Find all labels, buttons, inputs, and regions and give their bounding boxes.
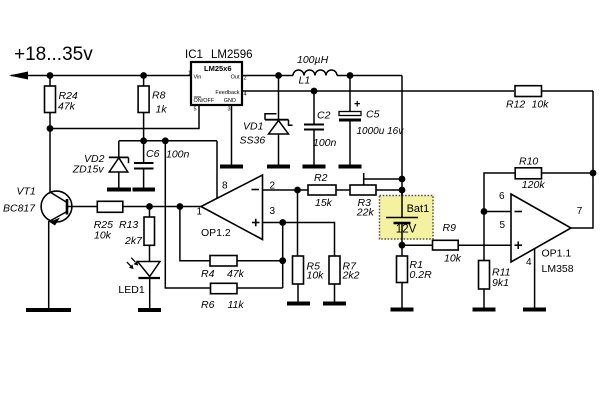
svg-text:R13: R13 xyxy=(119,219,138,231)
junction dot xyxy=(347,72,354,79)
svg-text:10k: 10k xyxy=(307,269,325,281)
wire R5 branch xyxy=(297,190,299,256)
wire pin 3 line xyxy=(263,223,335,257)
junction dot xyxy=(399,187,406,194)
svg-text:120k: 120k xyxy=(522,179,546,191)
svg-text:LM358: LM358 xyxy=(542,263,574,275)
svg-text:LM25x6: LM25x6 xyxy=(204,64,232,73)
junction dot xyxy=(399,242,406,249)
op-amp regulator IC1 LM2596 xyxy=(185,49,253,113)
ground R1 xyxy=(391,308,414,312)
resistor R3 22k adjustable xyxy=(350,173,402,219)
ground R7 xyxy=(323,302,346,306)
wire rail to R6 xyxy=(165,141,212,288)
svg-text:BC817: BC817 xyxy=(3,202,36,214)
wire ON/OFF line from R24 bottom to IC pin 5 xyxy=(50,105,199,129)
svg-text:3: 3 xyxy=(228,107,231,113)
junction dot xyxy=(279,257,286,264)
ground IC1 GND xyxy=(220,165,243,169)
wire VT1 emitter xyxy=(48,221,50,310)
resistor R10 120k xyxy=(484,156,593,212)
svg-text:C5: C5 xyxy=(366,109,380,121)
wire R25 to OP1.2 pin 1 xyxy=(123,206,201,208)
junction dot xyxy=(275,72,282,79)
svg-text:1000u 16v: 1000u 16v xyxy=(357,126,405,137)
junction dot xyxy=(311,88,318,95)
resistor R8 xyxy=(138,76,167,141)
wire pin 1 output line xyxy=(67,206,97,208)
wire pin 2 line xyxy=(263,189,309,191)
svg-text:10k: 10k xyxy=(444,253,462,265)
resistor R11 9k1 xyxy=(479,212,511,310)
transistor VT1 BC817 xyxy=(3,185,72,225)
resistor R24 xyxy=(45,76,78,129)
svg-text:1: 1 xyxy=(197,206,203,217)
resistor R13 xyxy=(119,207,155,262)
svg-text:C6: C6 xyxy=(146,148,160,160)
svg-text:22k: 22k xyxy=(356,207,375,219)
svg-text:IC1: IC1 xyxy=(185,49,203,61)
svg-text:R8: R8 xyxy=(152,90,166,102)
ground C6 xyxy=(133,188,156,192)
svg-text:10k: 10k xyxy=(532,99,550,111)
capacitor C6 100n xyxy=(134,141,190,190)
wire feedback line xyxy=(242,90,514,92)
ground R11 xyxy=(473,308,496,312)
svg-text:R9: R9 xyxy=(443,222,457,234)
wire output drop to battery xyxy=(401,76,403,218)
svg-text:2k7: 2k7 xyxy=(124,235,143,247)
svg-text:R6: R6 xyxy=(201,299,215,311)
svg-text:1k: 1k xyxy=(156,104,168,116)
ground C5 xyxy=(339,165,362,169)
junction dot xyxy=(481,208,488,215)
ground OP1.1 pin 4 xyxy=(523,308,546,312)
svg-text:ON/OFF: ON/OFF xyxy=(194,98,215,104)
svg-text:+18...35v: +18...35v xyxy=(14,44,93,65)
resistor R7 2k2 xyxy=(329,256,360,304)
svg-text:100n: 100n xyxy=(313,137,337,149)
ground LED1 xyxy=(138,308,161,312)
svg-text:5: 5 xyxy=(194,107,197,113)
ground VT1 emitter xyxy=(26,308,71,312)
svg-text:+: + xyxy=(354,99,360,111)
svg-text:L1: L1 xyxy=(299,75,311,87)
capacitor C2 100n xyxy=(304,91,337,167)
svg-text:R10: R10 xyxy=(519,156,538,168)
wire pin 6 input xyxy=(484,211,511,213)
ground C2 xyxy=(303,165,326,169)
wire pin 8 supply xyxy=(216,141,218,199)
resistor R1 0.2R xyxy=(397,245,433,309)
junction dot xyxy=(47,72,54,79)
diode VD1 SS36 schottky xyxy=(240,76,293,167)
resistor R12 10k xyxy=(506,86,593,111)
svg-text:100µH: 100µH xyxy=(297,54,329,66)
resistor R5 10k xyxy=(293,256,325,304)
svg-text:Feedback: Feedback xyxy=(215,90,239,96)
svg-text:11k: 11k xyxy=(228,299,245,311)
inductor L1 100µH xyxy=(293,54,337,87)
svg-text:10k: 10k xyxy=(94,229,112,241)
svg-text:47k: 47k xyxy=(58,101,76,113)
svg-text:2: 2 xyxy=(244,76,247,82)
wire IC GND pin to ground xyxy=(231,105,233,167)
svg-text:OP1.2: OP1.2 xyxy=(201,227,231,239)
svg-text:0.2R: 0.2R xyxy=(410,269,433,281)
wire L1 to output corner xyxy=(337,75,402,77)
wire pin1 branch to R4 xyxy=(180,207,210,261)
svg-text:R4: R4 xyxy=(201,268,215,280)
svg-text:12V: 12V xyxy=(396,223,417,235)
zener diode VD2 ZD15v xyxy=(72,141,129,190)
wire OP1.1 pin 4 to ground xyxy=(534,249,536,310)
wire input rail with arrow xyxy=(9,72,191,80)
junction dot xyxy=(146,203,153,210)
resistor R25 xyxy=(94,201,123,241)
op-amp OP1.2 xyxy=(197,175,276,240)
svg-text:5: 5 xyxy=(500,220,506,231)
svg-text:2k2: 2k2 xyxy=(342,269,360,281)
wire pin3 node vertical xyxy=(282,223,284,289)
wire Out pin to L1 xyxy=(242,75,293,77)
wire VT1 collector xyxy=(49,129,51,193)
svg-text:3: 3 xyxy=(270,206,276,217)
svg-text:Out: Out xyxy=(231,75,240,81)
svg-text:LM2596: LM2596 xyxy=(211,49,253,61)
junction dot xyxy=(47,125,54,132)
resistor R9 10k xyxy=(402,222,511,264)
svg-text:9k1: 9k1 xyxy=(492,277,509,289)
svg-text:8: 8 xyxy=(222,180,228,191)
LED LED1 xyxy=(118,258,160,310)
junction dot xyxy=(140,137,147,144)
svg-text:1: 1 xyxy=(188,71,191,77)
svg-text:GND: GND xyxy=(224,98,236,104)
ground R5 xyxy=(287,302,310,306)
svg-text:6: 6 xyxy=(499,191,505,202)
junction dot xyxy=(279,219,286,226)
svg-text:15k: 15k xyxy=(315,197,333,209)
svg-text:4: 4 xyxy=(526,257,532,268)
svg-text:Vin: Vin xyxy=(194,75,202,81)
svg-text:SS36: SS36 xyxy=(240,135,266,147)
wire 15v rail xyxy=(119,140,217,142)
junction dot xyxy=(590,170,597,177)
capacitor C5 1000u 16v xyxy=(339,76,404,167)
svg-text:R2: R2 xyxy=(314,172,328,184)
svg-text:7: 7 xyxy=(577,206,583,217)
ground VD1 xyxy=(267,165,290,169)
junction dot xyxy=(140,72,147,79)
junction dot xyxy=(177,203,184,210)
svg-text:LED1: LED1 xyxy=(118,284,144,296)
ground VD2 xyxy=(107,188,131,192)
svg-text:C2: C2 xyxy=(317,109,331,121)
op-amp OP1.1 LM358 xyxy=(499,191,583,275)
svg-text:OP1.1: OP1.1 xyxy=(542,248,572,260)
resistor R6 11k xyxy=(201,283,283,311)
svg-text:100n: 100n xyxy=(166,149,190,161)
svg-text:VT1: VT1 xyxy=(17,185,36,197)
svg-text:ZD15v: ZD15v xyxy=(72,164,105,176)
svg-text:VD1: VD1 xyxy=(243,120,263,132)
resistor R2 15k xyxy=(308,172,350,209)
svg-text:47k: 47k xyxy=(227,268,245,280)
junction dot xyxy=(162,137,169,144)
battery Bat1 12V xyxy=(380,193,434,245)
junction dot xyxy=(399,176,406,183)
resistor R4 47k xyxy=(201,256,283,281)
svg-text:4: 4 xyxy=(244,92,247,98)
junction dot xyxy=(294,187,301,194)
svg-text:Bat1: Bat1 xyxy=(407,203,430,215)
wire right output vertical xyxy=(571,91,593,228)
svg-text:R12: R12 xyxy=(506,99,525,111)
